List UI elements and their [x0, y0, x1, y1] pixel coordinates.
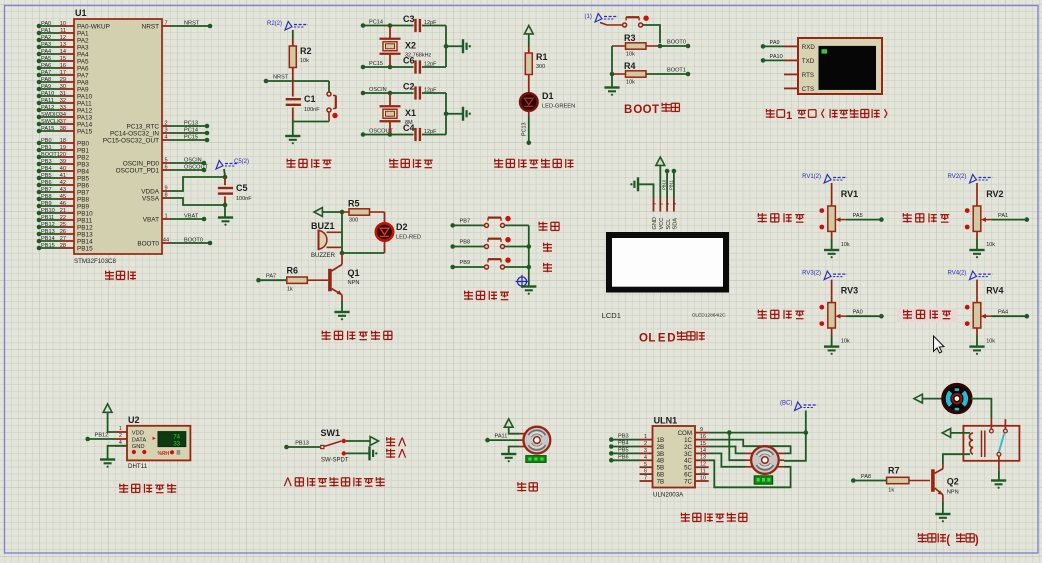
wire SCL [662, 171, 668, 198]
U1 pin OSCOUT_PD1 (6) wire [116, 164, 209, 174]
svg-text:18: 18 [60, 138, 66, 144]
svg-text:U2: U2 [128, 415, 140, 425]
svg-text:PB7: PB7 [460, 218, 471, 224]
label 独立按键 [464, 291, 509, 300]
node rail junction [444, 44, 449, 49]
svg-text:B: B [624, 104, 632, 116]
svg-text:PB3: PB3 [41, 159, 52, 165]
svg-text:PB15: PB15 [77, 245, 93, 252]
svg-text:Q2: Q2 [947, 477, 959, 487]
node OSCIN net label [361, 87, 390, 95]
svg-text:C5: C5 [236, 183, 248, 193]
svg-text:RV4: RV4 [986, 286, 1003, 296]
U1 pin PB0 (18) wire [37, 138, 90, 148]
svg-text:PB5: PB5 [77, 175, 90, 182]
svg-text:PA0: PA0 [41, 21, 51, 27]
resistor R2 10k [289, 40, 311, 82]
svg-text:VSSA: VSSA [142, 195, 160, 202]
svg-text:PB11: PB11 [41, 215, 54, 221]
label 温湿度模块 [119, 484, 176, 493]
relay RL1 body [963, 418, 1019, 461]
resistor R4 10k [612, 61, 688, 86]
svg-text:11: 11 [60, 28, 66, 34]
svg-text:PA9: PA9 [77, 86, 89, 93]
svg-text:PB14: PB14 [77, 238, 93, 245]
label 继电器(风扇) [918, 533, 979, 546]
svg-text:PB1: PB1 [77, 147, 90, 154]
node PA9 terminal [761, 40, 784, 49]
svg-text:NPN: NPN [947, 490, 959, 496]
svg-text:RXD: RXD [802, 44, 816, 51]
svg-text:SWDIO: SWDIO [41, 112, 61, 118]
wire COM to motor left-center [729, 433, 745, 461]
U1 pin PC14-OSC32_IN (3) wire [110, 127, 209, 137]
wire D2 to collector node [342, 252, 385, 254]
U1 pin PB5 (41) wire [37, 173, 90, 183]
wire button to BOOT0 node [643, 25, 660, 43]
svg-text:10k: 10k [986, 339, 995, 345]
svg-text:C1: C1 [304, 94, 316, 104]
wire fan to relay contact [971, 399, 992, 418]
wire SDA [668, 171, 674, 198]
relay bottom contact [997, 452, 1001, 456]
ULN1 pin 3B (3) stub [640, 448, 665, 458]
svg-text:OSCOUT_PD1: OSCOUT_PD1 [116, 167, 160, 174]
capacitor C3 12pF [390, 14, 446, 32]
svg-text:SW1: SW1 [321, 428, 341, 438]
node alarm top junction [340, 210, 345, 215]
svg-text:): ) [975, 535, 979, 547]
svg-text:LCD1: LCD1 [602, 311, 621, 320]
power symbol (BC) [780, 401, 818, 411]
svg-text:X2: X2 [405, 40, 416, 50]
label 加 [543, 243, 552, 252]
svg-text:BOOT0: BOOT0 [667, 40, 686, 46]
svg-text:PA7: PA7 [266, 274, 276, 280]
svg-text:OSCIN: OSCIN [184, 157, 202, 163]
wire power to R5 node [322, 211, 342, 213]
capacitor C2 12pF [390, 82, 446, 100]
svg-text:PB8: PB8 [460, 240, 471, 246]
svg-text:42: 42 [60, 180, 66, 186]
svg-text:PB11: PB11 [77, 217, 93, 224]
svg-text:PA8: PA8 [861, 474, 871, 480]
svg-text:17: 17 [60, 70, 66, 76]
node PB8 terminal [450, 240, 484, 249]
power symbol RV4(2) [948, 271, 993, 280]
node PA4 terminal [998, 310, 1029, 319]
svg-text:PB9: PB9 [41, 201, 52, 207]
label 舵机 [517, 482, 537, 491]
ground RV2 [969, 249, 984, 251]
svg-text:74: 74 [173, 435, 180, 441]
node rail junction PB8 [527, 244, 532, 249]
svg-text:PA5: PA5 [41, 56, 51, 62]
wire emitter to ground [341, 301, 343, 312]
svg-text:11: 11 [700, 469, 706, 475]
ULN1 pin 5C (12) stub [684, 462, 709, 472]
ULN1 pin 7C (10) stub [684, 475, 709, 485]
push button PB9 [485, 265, 489, 269]
mcu U1 STM32F103C8 body [74, 19, 162, 254]
ground crystal (rotated) [462, 39, 464, 53]
svg-text:16: 16 [60, 63, 66, 69]
svg-text:PA5: PA5 [853, 213, 863, 219]
svg-text:PB6: PB6 [41, 180, 52, 186]
svg-text:PB12: PB12 [41, 222, 55, 228]
wire GND to ground [108, 446, 127, 459]
led D1 LED-GREEN [520, 91, 575, 111]
svg-text:PB4: PB4 [41, 166, 52, 172]
svg-text:TXD: TXD [802, 58, 815, 65]
potentiometer RV1 10k [819, 189, 858, 248]
svg-text:VBAT: VBAT [143, 216, 159, 223]
svg-text:12: 12 [60, 35, 66, 41]
svg-text:PA10: PA10 [77, 93, 93, 100]
svg-text:1k: 1k [287, 287, 293, 293]
svg-text:RV2: RV2 [986, 189, 1003, 199]
node PA11 terminal [485, 434, 519, 443]
node PB13 terminal [284, 440, 320, 449]
highlight box 光照调节 [897, 308, 957, 323]
svg-text:VBAT: VBAT [184, 213, 199, 219]
svg-text:2: 2 [644, 441, 647, 447]
driver ULN1 ULN2003A body [653, 416, 696, 499]
ULN1 pin 6B (6) stub [640, 469, 665, 479]
mouse cursor [934, 336, 945, 353]
svg-text:PA1: PA1 [998, 213, 1008, 219]
svg-text:C4: C4 [403, 123, 415, 133]
node PC15 net label [361, 61, 390, 69]
svg-text:10k: 10k [300, 58, 309, 64]
U1 pin PB3 (39) wire [37, 159, 90, 169]
node OSCOUT net label [361, 129, 394, 137]
wire 4C to motor right-bottom [709, 460, 791, 487]
svg-text:R6: R6 [287, 266, 299, 276]
wire keys rail [528, 225, 530, 286]
U1 pin PB2 (20) wire [37, 152, 90, 162]
wire rail to ground [446, 113, 462, 115]
potentiometer RV2 10k [965, 189, 1004, 248]
label 串口1窗口（模拟手机端） [766, 109, 887, 122]
label 四项步进电机 [681, 513, 747, 522]
svg-text:SW-SPDT: SW-SPDT [321, 458, 349, 464]
svg-text:PB10: PB10 [77, 210, 93, 217]
svg-text:PB10: PB10 [662, 179, 667, 190]
svg-text:NRST: NRST [273, 75, 289, 81]
svg-text:PA11: PA11 [495, 434, 508, 440]
label 噪声调节 [758, 213, 805, 222]
svg-text:(1): (1) [585, 14, 592, 20]
svg-text:R5: R5 [348, 199, 360, 209]
power symbol RV1(2) [802, 174, 847, 183]
node COM junction right [804, 430, 809, 435]
virtual terminal body [784, 38, 882, 94]
wire COM rail to power [805, 411, 807, 433]
node PA1 terminal [998, 213, 1029, 222]
wire RV4 to ground [976, 335, 978, 347]
svg-text:D: D [667, 333, 675, 345]
svg-text:PB11: PB11 [668, 179, 673, 190]
power symbol C5(2) [216, 159, 249, 176]
label 设置 [538, 222, 559, 231]
svg-text:PB8: PB8 [41, 194, 52, 200]
node PB9 terminal [450, 260, 484, 269]
U1 pin OSCIN_PD0 (5) wire [123, 157, 207, 167]
ULN1 pin 5B (5) stub [640, 462, 665, 472]
power symbol fan (left arrow) [914, 394, 922, 403]
svg-text:PB13: PB13 [41, 229, 55, 235]
svg-text:PB4: PB4 [618, 441, 629, 447]
U1 pin PA10 (31) wire [37, 91, 93, 101]
U1 pin PB12 (25) wire [37, 222, 93, 232]
svg-text:PC13_RTC: PC13_RTC [126, 123, 159, 130]
svg-text:R1: R1 [536, 52, 548, 62]
svg-text:15: 15 [700, 441, 706, 447]
svg-text:PA12: PA12 [41, 105, 54, 111]
svg-text:RTS: RTS [802, 72, 814, 79]
svg-text:1: 1 [786, 110, 792, 122]
U1 pin PA3 (13) wire [37, 42, 89, 52]
svg-text:PA3: PA3 [41, 42, 51, 48]
ULN1 pin 4B (4) stub [640, 455, 665, 465]
wire servo to ground [509, 447, 520, 454]
wire Q2 emitter to ground [942, 502, 944, 514]
wire crystal right rail [445, 93, 447, 135]
U1 pin VSSA (8) wire to C5 bottom rail [142, 192, 225, 205]
wire NRST to button [293, 80, 329, 82]
svg-text:PB3: PB3 [77, 161, 90, 168]
svg-text:19: 19 [60, 145, 66, 151]
node SDA wire top [672, 169, 677, 174]
node rail junction PB9 [527, 265, 532, 270]
power symbol R2(2) [267, 21, 308, 30]
U1 pin PA5 (15) wire [37, 56, 89, 66]
label 光照调节 [903, 310, 951, 319]
U1 pin NRST (7) wire [142, 20, 213, 30]
wire power to RV3 [831, 280, 833, 296]
svg-text:46: 46 [60, 201, 66, 207]
label 声光报警电路 [322, 331, 392, 340]
push button PB7 [485, 223, 489, 227]
svg-text:PA15: PA15 [41, 126, 54, 132]
resistor R6 1k [287, 266, 329, 293]
node PB4 terminal [609, 441, 640, 449]
svg-text:SCL: SCL [666, 219, 672, 230]
svg-text:GND: GND [132, 444, 145, 450]
power symbol relay coil (left arrow) [942, 429, 950, 438]
svg-text:RV3(2): RV3(2) [802, 271, 821, 277]
capacitor C6 12pF [390, 56, 446, 74]
node PB5 terminal [609, 447, 640, 455]
svg-text:ULN2003A: ULN2003A [653, 492, 684, 499]
svg-text:8: 8 [164, 192, 167, 198]
motor fan body [943, 385, 971, 413]
wire crystal right rail [445, 26, 447, 68]
svg-text:21: 21 [60, 208, 66, 214]
svg-text:41: 41 [60, 173, 66, 179]
svg-text:DATA: DATA [132, 437, 147, 443]
svg-text:14: 14 [700, 448, 706, 454]
wire relay contact to ground [998, 456, 1000, 480]
svg-text:PA8: PA8 [77, 79, 89, 86]
U1 pin PA11 (32) wire [37, 98, 92, 108]
svg-text:1k: 1k [888, 488, 894, 494]
ULN1 pin 3C (14) stub [684, 448, 709, 458]
svg-text:%RH: %RH [158, 451, 170, 457]
U1 pin PB4 (40) wire [37, 166, 90, 176]
ground RV3 [824, 345, 839, 347]
node PB12 terminal [85, 433, 115, 442]
power symbol indicator [524, 26, 533, 34]
svg-text:7B: 7B [657, 478, 665, 485]
U1 pin PA14 (37) wire [37, 119, 93, 129]
motor stepper body [745, 446, 784, 484]
svg-text:10k: 10k [841, 242, 850, 248]
power symbol RV3(2) [802, 271, 847, 280]
node OSCOUT junction [388, 132, 393, 137]
ULN1 pin COM (9) stub [678, 427, 709, 437]
U1 pin PC15-OSC32_OUT (4) wire [103, 134, 209, 144]
wire alarm rail [341, 212, 343, 253]
svg-text:PA10: PA10 [770, 54, 783, 60]
capacitor C4 12pF [390, 123, 446, 141]
buzzer BUZ1 [311, 221, 342, 259]
resistor R5 300 [342, 199, 385, 224]
svg-text:LED-RED: LED-RED [396, 235, 421, 241]
svg-text:PA2: PA2 [41, 35, 51, 41]
ground keys [521, 285, 536, 287]
wire 1C to motor right-top [709, 440, 791, 454]
U1 pin PB6 (42) wire [37, 180, 90, 190]
wire power to RV1 [831, 183, 833, 199]
svg-text:STM32F103C8: STM32F103C8 [74, 258, 117, 265]
label OLED显示屏 [639, 331, 705, 344]
sensor U2 DHT11 body [115, 415, 190, 470]
svg-text:PB2: PB2 [77, 154, 90, 161]
svg-text:12pF: 12pF [424, 129, 437, 135]
svg-text:9: 9 [700, 427, 703, 433]
U1 pin PA12 (33) wire [37, 105, 93, 115]
svg-text:6: 6 [164, 164, 167, 170]
wire rail to ground [611, 74, 613, 87]
U1 pin PB8 (45) wire [37, 194, 90, 204]
capacitor C1 100nF [286, 81, 321, 122]
wire D1 to PC13 terminal [522, 111, 529, 143]
svg-text:PA9: PA9 [41, 84, 51, 90]
svg-text:PC13: PC13 [522, 123, 528, 137]
svg-text:C6: C6 [403, 56, 415, 66]
svg-text:PB12: PB12 [95, 433, 109, 439]
svg-text:PB13: PB13 [77, 231, 93, 238]
lcd LCD1 OLED12864I2C pins [652, 198, 679, 230]
wire VCC [659, 165, 661, 198]
svg-text:4: 4 [164, 134, 167, 140]
power symbol 无人 (right arrow) [370, 437, 378, 446]
wire power to RV2 [976, 183, 978, 199]
wire COM to motor right-center [784, 433, 806, 461]
wire power to coil [951, 432, 970, 434]
svg-text:PA7: PA7 [41, 70, 51, 76]
svg-text:PA6: PA6 [41, 63, 51, 69]
origin marker (blue) [516, 275, 529, 288]
label 复位电路 [286, 159, 331, 168]
svg-text:PC14: PC14 [369, 20, 383, 26]
U1 pin PA2 (12) wire [37, 35, 89, 45]
svg-text:PA2: PA2 [77, 37, 89, 44]
wire COM net [709, 432, 806, 434]
wire RV2 wiper to PA1 [991, 219, 1026, 221]
svg-text:C5(2): C5(2) [234, 159, 249, 165]
svg-text:T: T [652, 104, 659, 116]
svg-text:BOOT0: BOOT0 [137, 240, 159, 247]
svg-text:33: 33 [173, 442, 180, 448]
svg-text:R2(2): R2(2) [267, 21, 282, 27]
ground alarm [334, 311, 349, 313]
svg-text:300: 300 [349, 218, 358, 224]
svg-text:PA5: PA5 [77, 58, 89, 65]
svg-text:34: 34 [60, 112, 66, 118]
svg-text:OSCIN: OSCIN [369, 87, 387, 93]
node COM junction left [727, 430, 732, 435]
svg-text:10: 10 [700, 475, 706, 481]
svg-text:40: 40 [60, 166, 66, 172]
U1 pin PA0-WKUP (10) wire [37, 21, 110, 31]
svg-text:1: 1 [119, 426, 122, 432]
svg-text:PB3: PB3 [618, 434, 629, 440]
transistor Q2 NPN [931, 464, 959, 502]
svg-text:12: 12 [700, 462, 706, 468]
svg-text:RV1: RV1 [841, 189, 858, 199]
svg-text:100nF: 100nF [236, 196, 252, 202]
wire power to VDD [108, 412, 115, 432]
svg-text:7C: 7C [684, 478, 692, 485]
ground reset circuit [285, 135, 300, 137]
svg-text:E: E [658, 333, 666, 345]
node NRST net label [264, 75, 293, 84]
node BOOT0 junction [658, 44, 663, 49]
U1 pin PB13 (26) wire [37, 229, 93, 239]
power symbol RV2(2) [948, 174, 993, 183]
svg-text:16: 16 [700, 434, 706, 440]
node PA0 terminal [853, 310, 884, 319]
U1 pin PB15 (28) wire [37, 243, 93, 253]
ground OLED GND (rotated) [637, 177, 639, 191]
node C5 top junction [223, 175, 228, 180]
svg-text:PA1: PA1 [41, 28, 51, 34]
label 有人 [386, 449, 405, 458]
node PB3 terminal [609, 434, 640, 442]
ULN1 pin 1B (1) stub [640, 434, 665, 444]
ground boot circuit [604, 86, 619, 88]
resistor R3 10k [612, 33, 660, 58]
svg-text:PB8: PB8 [77, 196, 90, 203]
svg-text:(BC): (BC) [780, 401, 792, 407]
U1 pin BOOT0 (44) wire [137, 237, 212, 247]
svg-text:SWCLK: SWCLK [41, 119, 61, 125]
svg-text:PB15: PB15 [41, 243, 55, 249]
wire RV3 to ground [831, 335, 833, 347]
crystal X1 8M [380, 93, 417, 135]
push button PB8 [485, 245, 489, 249]
svg-text:BOOT0: BOOT0 [184, 237, 203, 243]
ULN1 pin 4C (13) stub [684, 455, 709, 465]
svg-text:OSCOUT: OSCOUT [184, 164, 209, 170]
svg-text:Q1: Q1 [348, 268, 360, 278]
wire power to boot button [600, 23, 623, 26]
node rail junction [444, 111, 449, 116]
svg-text:7: 7 [644, 476, 647, 482]
